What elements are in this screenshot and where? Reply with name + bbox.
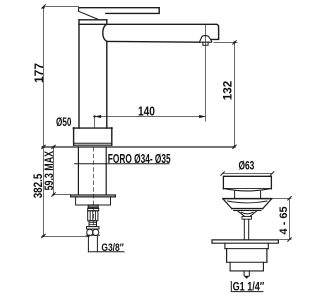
svg-text:177: 177 [32, 63, 46, 83]
svg-text:Ø50: Ø50 [56, 117, 72, 130]
svg-text:140: 140 [138, 105, 155, 119]
svg-text:59.3 MAX: 59.3 MAX [43, 151, 57, 190]
svg-text:G3/8″: G3/8″ [101, 242, 124, 254]
svg-text:G1 1/4″: G1 1/4″ [233, 282, 265, 294]
svg-text:132: 132 [220, 80, 234, 100]
svg-text:4 - 65: 4 - 65 [278, 206, 290, 234]
svg-text:FORO Ø34- Ø35: FORO Ø34- Ø35 [108, 152, 171, 166]
svg-text:Ø63: Ø63 [238, 160, 254, 173]
